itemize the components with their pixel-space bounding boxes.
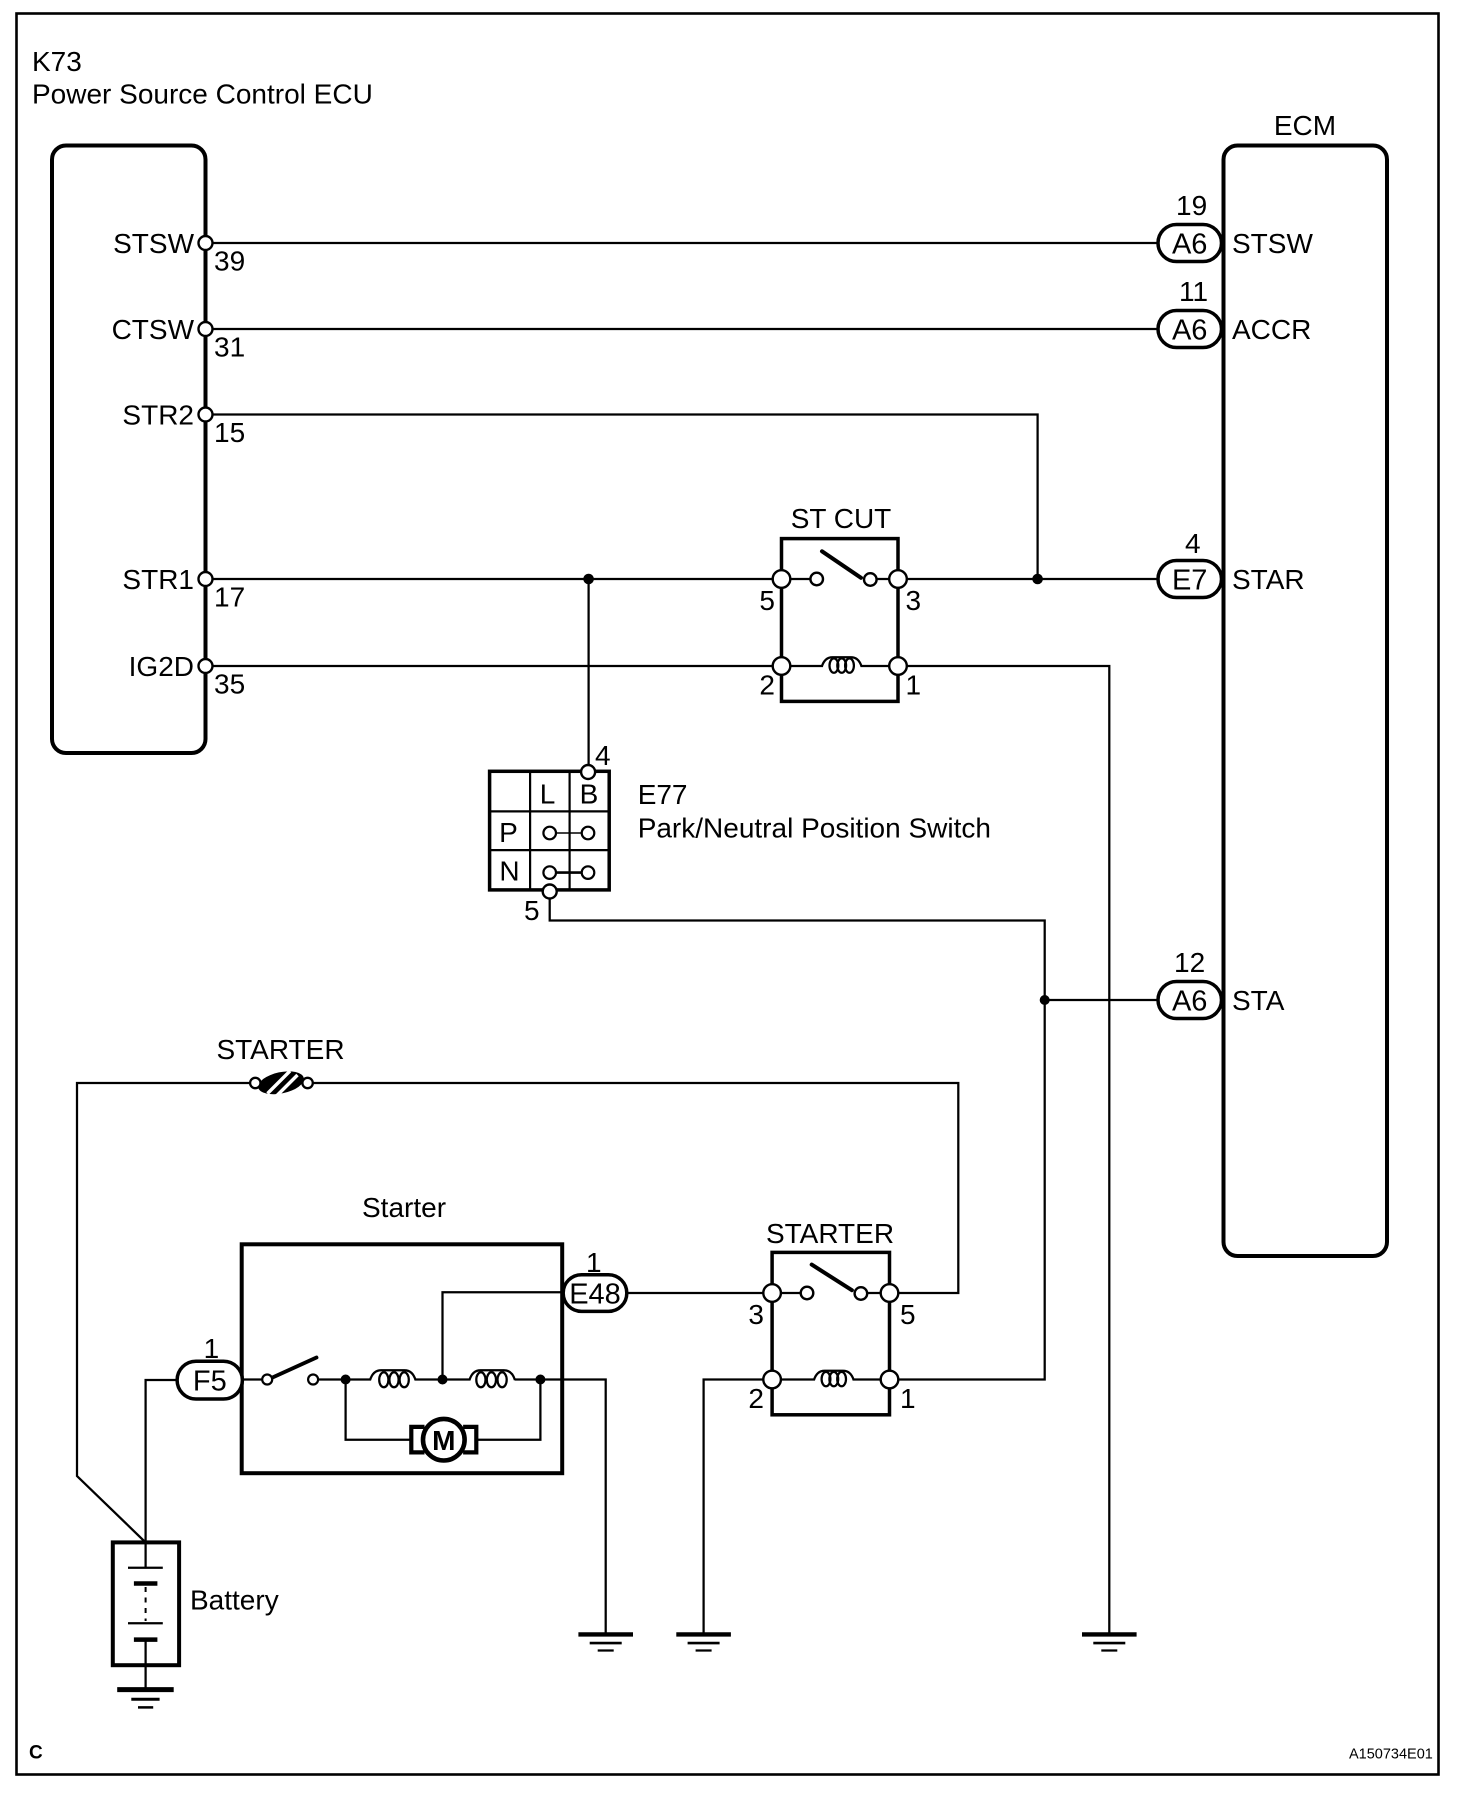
svg-text:N: N xyxy=(499,856,519,887)
wire E77 pin 5 to STARTER relay pin 1 xyxy=(550,898,1045,1380)
svg-text:2: 2 xyxy=(748,1383,764,1414)
svg-text:5: 5 xyxy=(759,585,775,616)
svg-text:B: B xyxy=(580,779,599,810)
svg-text:17: 17 xyxy=(214,582,245,613)
svg-text:STARTER: STARTER xyxy=(216,1034,344,1065)
wire STA from node to A6 xyxy=(1045,999,1160,1001)
wire CTSW xyxy=(207,328,1160,330)
svg-text:39: 39 xyxy=(214,246,245,277)
svg-text:E77: E77 xyxy=(638,779,688,810)
starter node B xyxy=(438,1375,448,1385)
ST CUT switch stub wires xyxy=(786,578,812,580)
STARTER relay pin 3 xyxy=(748,1284,780,1330)
starter assembly box xyxy=(242,1192,563,1473)
connector oval E7 STAR 4 xyxy=(1158,528,1305,598)
E77 pin 5 xyxy=(524,885,557,927)
wire STAR from ST CUT pin 3 to E7 xyxy=(903,578,1160,580)
ST CUT contact a xyxy=(810,573,823,586)
ST CUT pin 2 xyxy=(759,657,790,700)
STARTER relay pin 1 xyxy=(881,1371,916,1414)
svg-text:M: M xyxy=(432,1425,455,1456)
svg-text:STSW: STSW xyxy=(113,228,194,259)
ECM box xyxy=(1224,146,1388,1257)
svg-text:IG2D: IG2D xyxy=(129,651,194,682)
svg-text:Starter: Starter xyxy=(362,1192,446,1223)
wire STR2 xyxy=(207,415,1038,580)
pin STR1 17 xyxy=(122,564,245,613)
connector oval A6 STSW 19 xyxy=(1158,190,1313,262)
wire F5 to battery xyxy=(146,1380,178,1542)
E77 P contact link xyxy=(553,832,585,834)
svg-text:3: 3 xyxy=(748,1299,764,1330)
STARTER relay pin 2 xyxy=(748,1371,780,1414)
pin STR2 15 xyxy=(122,400,245,449)
wire starter coil link xyxy=(415,1378,471,1380)
svg-text:11: 11 xyxy=(1179,276,1208,307)
svg-text:15: 15 xyxy=(214,417,245,448)
node junction E77-4/STR1 xyxy=(583,574,594,585)
svg-text:1: 1 xyxy=(586,1247,602,1278)
starter switch contact a xyxy=(262,1375,272,1385)
E77 N-B contact xyxy=(582,866,595,879)
STARTER relay contact a xyxy=(801,1287,814,1300)
svg-text:5: 5 xyxy=(524,895,540,926)
label E77 xyxy=(638,779,991,844)
connector oval A6 STA 12 xyxy=(1158,947,1285,1019)
ST CUT pin 5 xyxy=(759,570,790,616)
motor M xyxy=(411,1419,476,1461)
svg-text:1: 1 xyxy=(204,1333,220,1364)
E77 pin 4 xyxy=(581,740,610,779)
ST CUT pin 1 xyxy=(889,657,921,700)
svg-text:1: 1 xyxy=(906,670,922,701)
starter coil 2 xyxy=(469,1370,515,1387)
wire battery feed left of fuse xyxy=(77,1083,251,1542)
svg-text:STARTER: STARTER xyxy=(766,1218,894,1249)
fuse STARTER xyxy=(216,1034,344,1098)
node junction STA xyxy=(1040,995,1050,1005)
svg-text:CTSW: CTSW xyxy=(112,314,195,345)
svg-text:STAR: STAR xyxy=(1232,564,1305,595)
wire fuse to STARTER relay pin 5 xyxy=(313,1083,959,1293)
svg-text:ECM: ECM xyxy=(1274,110,1336,141)
svg-text:STSW: STSW xyxy=(1232,228,1313,259)
battery xyxy=(113,1542,279,1689)
svg-text:3: 3 xyxy=(906,585,922,616)
STARTER relay coil xyxy=(777,1371,885,1387)
ST CUT switch blade xyxy=(822,551,861,578)
pin CTSW 31 xyxy=(112,314,246,363)
wire starter output to ground xyxy=(540,1380,605,1635)
E77 N contact link xyxy=(553,871,585,874)
E77 P-B contact xyxy=(582,827,595,840)
starter switch blade xyxy=(273,1358,317,1378)
switch E77 park/neutral xyxy=(490,771,610,890)
wire STSW xyxy=(207,242,1160,244)
starter switch contact b xyxy=(308,1375,318,1385)
wire ST CUT pin 1 to ground xyxy=(903,666,1109,1634)
wire IG2D to ST CUT pin 2 xyxy=(207,665,776,667)
node junction STR2/STAR xyxy=(1032,574,1043,585)
pin STSW 39 xyxy=(113,228,245,277)
svg-text:4: 4 xyxy=(1185,528,1201,559)
starter coil 1 xyxy=(370,1370,416,1387)
svg-text:STA: STA xyxy=(1232,985,1285,1016)
svg-text:A150734E01: A150734E01 xyxy=(1349,1746,1433,1762)
ground starter relay xyxy=(676,1634,731,1650)
svg-text:A6: A6 xyxy=(1172,986,1207,1018)
connector oval E48 xyxy=(563,1247,627,1311)
wire motor right feed xyxy=(478,1380,541,1440)
svg-text:STR1: STR1 xyxy=(122,564,194,595)
svg-text:L: L xyxy=(540,779,556,810)
E77 N-L contact xyxy=(543,866,556,879)
wire starter switch feed xyxy=(242,1378,263,1380)
svg-text:E7: E7 xyxy=(1172,565,1207,597)
svg-text:K73: K73 xyxy=(32,46,82,77)
svg-text:Park/Neutral Position Switch: Park/Neutral Position Switch xyxy=(638,813,991,844)
starter node C xyxy=(535,1375,545,1385)
svg-text:4: 4 xyxy=(595,740,611,771)
ST CUT pin 3 xyxy=(889,570,921,616)
svg-text:C: C xyxy=(29,1743,43,1764)
svg-text:31: 31 xyxy=(214,332,245,363)
svg-text:STR2: STR2 xyxy=(122,400,194,431)
connector oval A6 ACCR 11 xyxy=(1158,276,1311,348)
svg-text:2: 2 xyxy=(759,670,775,701)
STARTER relay switch blade xyxy=(812,1265,852,1291)
svg-text:ST CUT: ST CUT xyxy=(791,503,892,534)
ST CUT contact b xyxy=(864,573,877,586)
wire E48 to STARTER relay pin 3 xyxy=(627,1292,764,1294)
relay STARTER xyxy=(766,1218,894,1415)
connector oval F5 xyxy=(177,1333,242,1399)
STARTER relay pin 5 xyxy=(881,1284,916,1330)
relay ST CUT xyxy=(782,503,899,701)
svg-text:35: 35 xyxy=(214,669,245,700)
ground starter xyxy=(578,1634,633,1650)
svg-text:1: 1 xyxy=(900,1383,916,1414)
ground battery xyxy=(117,1690,174,1708)
wire motor left feed xyxy=(346,1380,410,1440)
wire starter switch to node A xyxy=(318,1378,372,1380)
starter node A xyxy=(341,1375,351,1385)
svg-text:E48: E48 xyxy=(569,1279,621,1311)
svg-text:A6: A6 xyxy=(1172,229,1207,261)
E77 P-L contact xyxy=(543,827,556,840)
svg-text:5: 5 xyxy=(900,1299,916,1330)
ground IG2D line xyxy=(1082,1634,1137,1650)
STARTER relay contact b xyxy=(855,1287,868,1300)
wire STARTER relay pin 2 to ground xyxy=(704,1380,764,1635)
ST CUT coil xyxy=(786,657,894,673)
svg-text:F5: F5 xyxy=(193,1366,227,1398)
svg-text:12: 12 xyxy=(1174,947,1205,978)
svg-text:19: 19 xyxy=(1176,190,1207,221)
svg-text:ACCR: ACCR xyxy=(1232,314,1311,345)
wire STR1 to ST CUT pin 5 xyxy=(207,578,776,580)
ECU K73 box xyxy=(52,146,206,754)
wire E77 pin 4 riser to STR1 xyxy=(587,579,589,767)
wire starter coil 2 to node C xyxy=(515,1378,545,1380)
svg-text:Battery: Battery xyxy=(190,1585,279,1616)
STARTER relay switch stub wires xyxy=(777,1292,802,1294)
svg-text:Power Source Control ECU: Power Source Control ECU xyxy=(32,79,373,110)
label K73 title xyxy=(32,46,373,110)
svg-text:P: P xyxy=(499,817,518,848)
wire E48 riser xyxy=(443,1292,565,1379)
svg-text:A6: A6 xyxy=(1172,315,1207,347)
pin IG2D 35 xyxy=(129,651,246,700)
